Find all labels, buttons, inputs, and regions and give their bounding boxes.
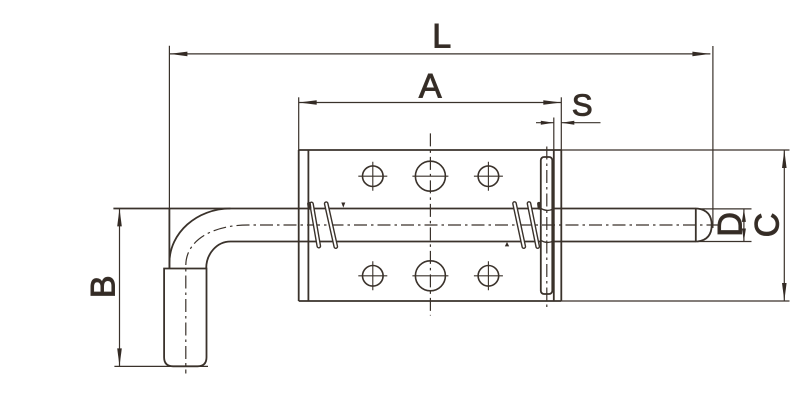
svg-text:A: A bbox=[419, 67, 442, 105]
svg-text:D: D bbox=[712, 212, 750, 237]
hole H5 bottom-center large bbox=[415, 261, 445, 291]
spring right coil 2 core bbox=[529, 204, 538, 247]
plate left inner fold line bbox=[307, 150, 309, 301]
spring right coil 2 bbox=[529, 204, 538, 247]
handle grip cylinder bbox=[164, 269, 206, 367]
centerline: main rod axis bbox=[186, 225, 720, 374]
wire: rod bottom bulge across keeper bbox=[541, 240, 554, 242]
hole H2 top-center large bbox=[415, 161, 445, 191]
keeper strap U1 bbox=[541, 157, 553, 294]
spring right coil 1 bbox=[515, 204, 524, 247]
dimension L right extension bbox=[712, 46, 714, 228]
handle outer bend curve bbox=[169, 209, 230, 269]
centerline: keeper bbox=[546, 147, 548, 308]
hole H1 top-left small bbox=[363, 166, 384, 187]
plate left edge bbox=[298, 150, 300, 301]
spring left coil 1 bbox=[312, 204, 319, 246]
plate right inner fold line bbox=[553, 150, 555, 301]
dimension A line bbox=[299, 102, 562, 104]
plate right edge bbox=[560, 150, 562, 301]
svg-text:S: S bbox=[572, 88, 593, 123]
centerline: hole column bbox=[429, 133, 431, 315]
spring left coil 2 core bbox=[326, 204, 336, 247]
dimension C extensions bbox=[561, 149, 789, 151]
dimension L left extension bbox=[168, 46, 170, 210]
dimension S extension bbox=[553, 118, 555, 151]
wire: rod top bulge across keeper bbox=[541, 208, 554, 210]
dimension D line bbox=[743, 209, 745, 242]
spring right end anchor bbox=[537, 204, 541, 208]
dimension C line bbox=[783, 150, 785, 301]
dimension L line bbox=[169, 53, 710, 55]
hole H3 top-right small bbox=[478, 166, 499, 187]
svg-text:C: C bbox=[749, 213, 787, 238]
dimension B bottom extension bbox=[114, 365, 208, 367]
dimension A extensions bbox=[298, 97, 300, 150]
svg-text:L: L bbox=[432, 18, 451, 56]
dimension D extensions bbox=[697, 208, 752, 210]
wire: bolt rod bottom edge bbox=[231, 241, 697, 243]
plate top edge bbox=[299, 149, 562, 151]
plate bottom edge bbox=[299, 300, 562, 302]
spring right coil 1 core bbox=[515, 204, 524, 247]
hole H4 bottom-left small bbox=[363, 266, 384, 287]
mark: spring right retaining pin bbox=[505, 242, 509, 246]
dimension B line bbox=[119, 208, 121, 366]
mark: spring left retaining pin bbox=[341, 203, 345, 208]
spring left coil 2 bbox=[326, 204, 336, 247]
rod end cap bbox=[695, 209, 697, 242]
svg-text:B: B bbox=[84, 275, 122, 298]
spring left end anchor bbox=[307, 204, 311, 208]
hole H6 bottom-right small bbox=[478, 266, 499, 287]
spring left coil 1 core bbox=[312, 204, 319, 246]
wire: bolt rod top edge bbox=[113, 208, 696, 210]
dimension S bbox=[536, 122, 554, 124]
handle inner bend curve bbox=[206, 242, 230, 269]
